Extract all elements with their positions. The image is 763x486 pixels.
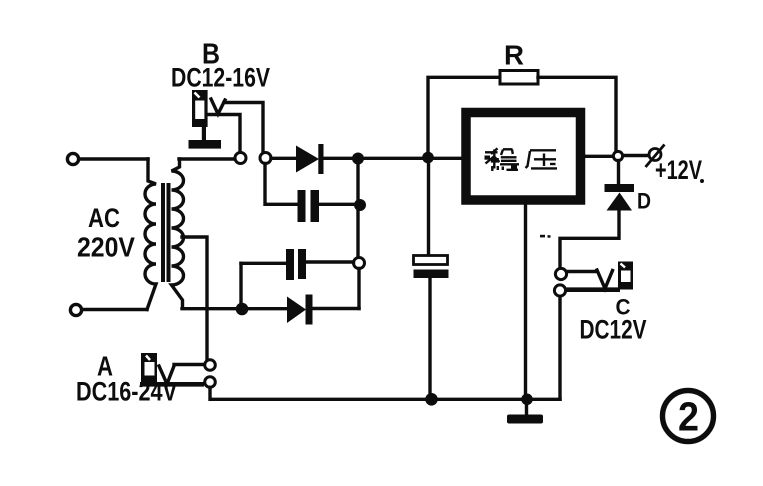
wire jack B upper lead	[224, 103, 263, 153]
wire jack B lower lead	[209, 115, 240, 153]
wire D1 to regulator	[323, 157, 461, 160]
capacitor C1	[298, 190, 320, 222]
wire N1 down	[357, 269, 360, 309]
wire C1 to junction	[319, 203, 355, 206]
label +12V	[655, 155, 704, 185]
node jack A contact 2	[205, 377, 216, 388]
jack C contact lever	[597, 270, 613, 289]
junction dot top of C3 riser	[422, 152, 434, 164]
figure number 2	[663, 391, 714, 442]
label B DC12-16V	[171, 39, 270, 93]
wire C2 right to N1	[306, 260, 354, 263]
wire bottom bus	[210, 388, 560, 400]
node N2 output	[613, 151, 622, 160]
wire regulator ground pin	[524, 205, 527, 400]
wire regulator output pin	[585, 155, 613, 158]
regulator box U1	[466, 113, 581, 201]
svg-text:220V: 220V	[77, 232, 135, 263]
jack A plug body	[140, 353, 204, 384]
node jack A contact 1	[205, 360, 216, 371]
wire C2 left down	[239, 263, 242, 308]
ground	[507, 399, 543, 424]
wire riser to capacitor C3	[427, 158, 430, 257]
svg-text:AC: AC	[88, 203, 120, 233]
svg-text:DC16-24V: DC16-24V	[76, 377, 177, 407]
junction dot J2	[354, 199, 366, 211]
wire capacitor C2 left	[241, 262, 287, 265]
junction dot J3	[236, 303, 249, 316]
wire feedback loop up to R	[428, 77, 500, 157]
wire D2 to riser	[312, 307, 359, 310]
label wen (stabilize) glyph	[485, 148, 520, 171]
resistor R	[500, 71, 538, 85]
svg-text:R: R	[504, 40, 524, 71]
transformer core	[161, 183, 165, 282]
wire D3 to jack C	[560, 211, 619, 269]
node jack B contact 2	[260, 153, 271, 164]
wire jack C down to bus	[558, 297, 561, 400]
jack B plug body	[189, 90, 222, 149]
diode D1	[296, 144, 324, 174]
terminal J2 input bottom	[70, 304, 81, 315]
terminal J1 input top	[67, 153, 78, 164]
svg-text:2: 2	[678, 394, 699, 440]
wire center tap to jack A	[182, 237, 207, 360]
node jack B contact 1	[235, 153, 246, 164]
wire N2 to diode D3	[617, 161, 620, 186]
svg-text:DC12-16V: DC12-16V	[171, 63, 270, 93]
output terminal phi	[646, 145, 665, 168]
svg-text:+12V: +12V	[655, 155, 702, 185]
wire input bottom	[83, 308, 147, 311]
svg-text:DC12V: DC12V	[580, 315, 647, 345]
wire jack C upper lead	[567, 270, 597, 273]
wire secondary bottom	[182, 307, 287, 310]
wire input top	[80, 157, 148, 160]
junction dot C3 bus	[425, 393, 438, 406]
node jack C contact 1	[555, 268, 566, 279]
wire C3 down to bus	[428, 278, 431, 399]
transformer T secondary winding	[172, 159, 184, 308]
wire jack A upper lead	[174, 363, 204, 366]
label C DC12V	[580, 295, 647, 345]
transformer T primary winding	[145, 159, 156, 310]
capacitor C3 electrolytic	[414, 256, 449, 279]
wire R to output node	[538, 77, 616, 152]
label ya (press) glyph	[526, 150, 558, 168]
jack A contact lever	[159, 366, 174, 384]
diode D3	[605, 184, 635, 211]
wire vertical J1-J2-N1	[356, 159, 359, 258]
node N1 open	[354, 258, 365, 269]
node jack C contact 2	[554, 285, 565, 296]
capacitor C2	[286, 249, 306, 280]
jack B contact lever	[211, 99, 225, 114]
junction dot ground	[521, 394, 533, 406]
wire secondary top to jack B	[179, 157, 235, 160]
junction dot J1	[352, 153, 364, 165]
jack C plug body	[566, 262, 633, 290]
diode D2	[287, 295, 313, 325]
svg-text:D: D	[637, 189, 651, 214]
label AC 220V	[77, 203, 135, 263]
wire contact2 to diode D1	[271, 157, 297, 160]
noise dashes	[540, 235, 551, 238]
wire to output terminal	[623, 154, 648, 157]
label A DC16-24V	[76, 351, 177, 407]
wire contact2 down to capacitor C1	[265, 164, 298, 205]
